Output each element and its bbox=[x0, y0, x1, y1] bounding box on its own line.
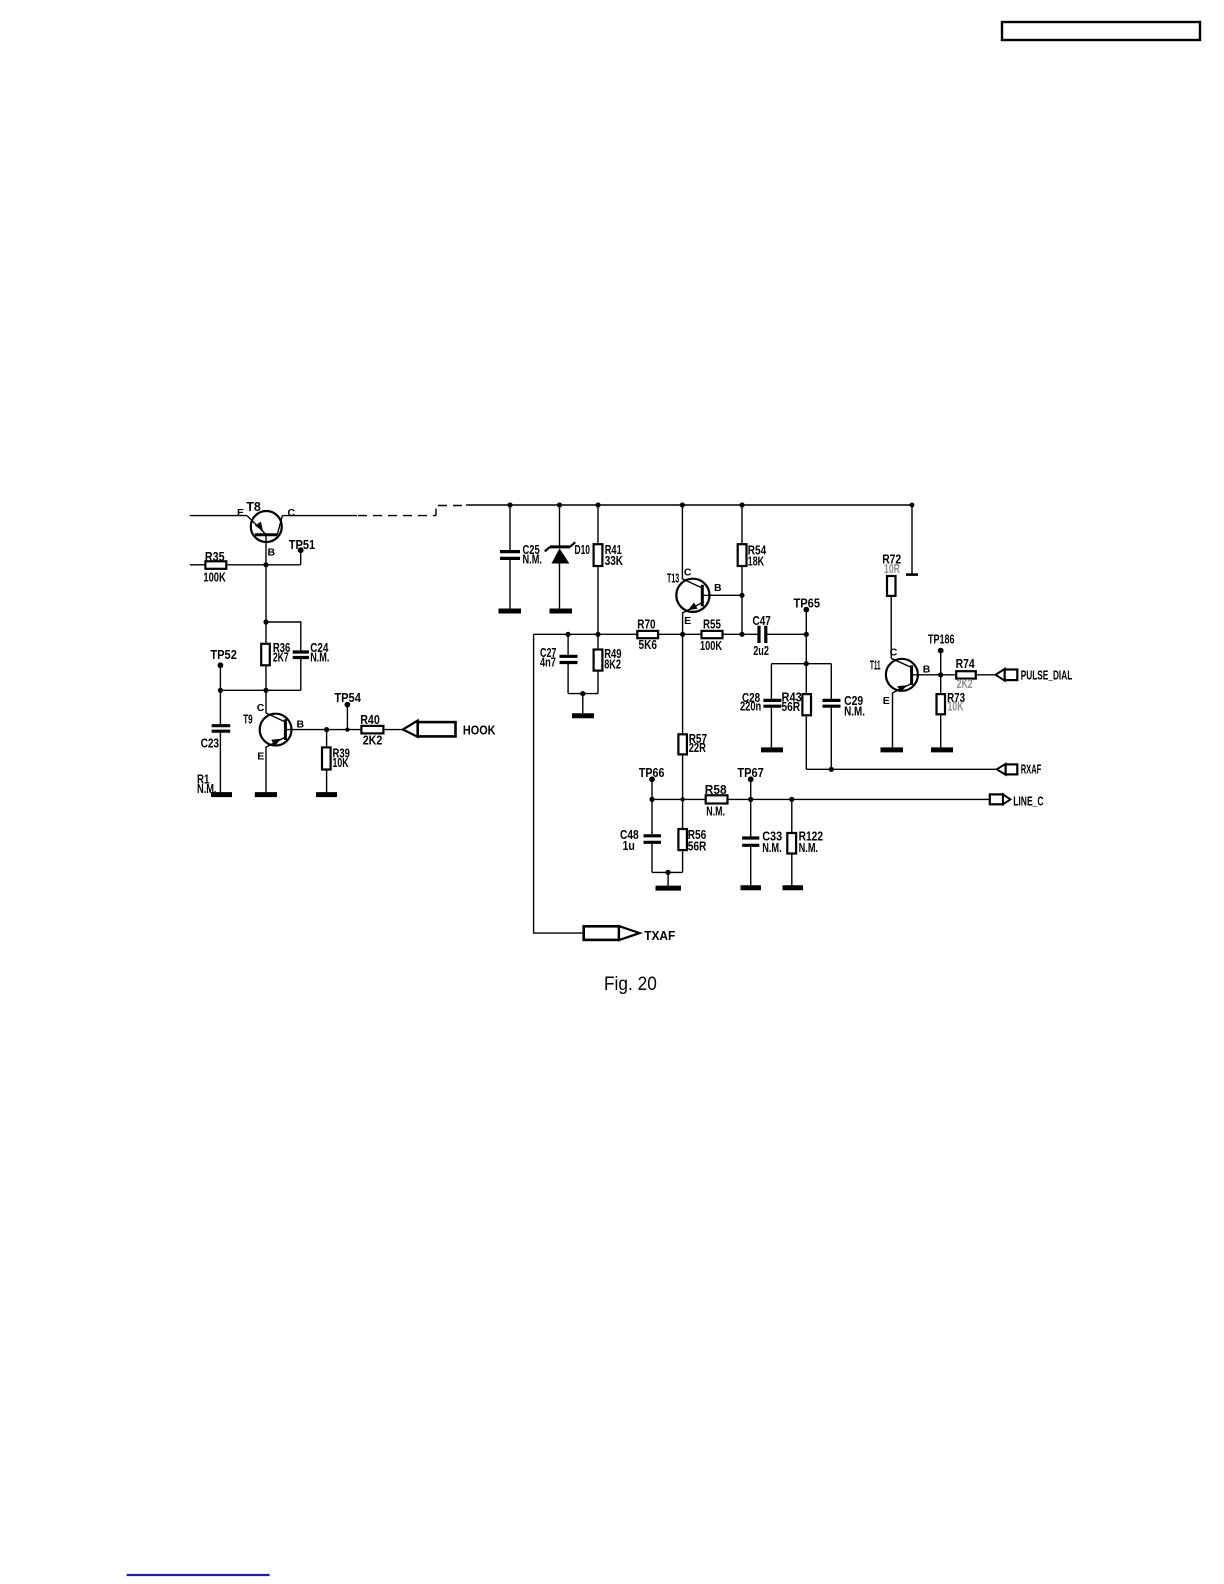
wire: R54 drop bbox=[741, 505, 743, 544]
wire: R122 drop bbox=[791, 799, 793, 833]
ground below R39 bbox=[316, 792, 337, 797]
svg-text:2K7: 2K7 bbox=[273, 651, 289, 665]
wire: C28/R43/C29 top bus bbox=[771, 663, 831, 665]
wire: R55 to C47 bbox=[723, 633, 758, 635]
resistor R39 10K bbox=[322, 730, 350, 770]
wire: C48/R56 bottom bus bbox=[652, 871, 683, 873]
resistor R41 33K bbox=[594, 543, 623, 568]
capacitor C23 bbox=[201, 726, 231, 751]
svg-text:2K2: 2K2 bbox=[957, 677, 973, 691]
wire: R49 bottom lead bbox=[597, 671, 599, 694]
svg-text:10R: 10R bbox=[884, 562, 900, 576]
junction at mid rail / R54 column bbox=[739, 632, 744, 637]
wire: T11 emitter down bbox=[892, 692, 894, 747]
svg-text:D10: D10 bbox=[575, 543, 591, 557]
connector PULSE_DIAL bbox=[996, 669, 1073, 683]
wire: T9 collector from node bbox=[265, 690, 267, 713]
svg-text:10K: 10K bbox=[948, 700, 964, 714]
resistor R43 56R bbox=[782, 664, 812, 716]
ground below T11 emitter bbox=[881, 747, 904, 752]
svg-text:E: E bbox=[883, 695, 890, 707]
wire: R122 to ground bbox=[791, 854, 793, 886]
resistor R56 56R bbox=[678, 799, 706, 853]
resistor R122 N.M. bbox=[787, 830, 823, 855]
wire: D10 to ground bbox=[559, 564, 561, 610]
wire: R56 bottom bbox=[682, 850, 684, 872]
connector LINE_C bbox=[990, 794, 1044, 808]
capacitor C27 4n7 bbox=[540, 646, 578, 670]
wire: C28 drop bbox=[770, 664, 772, 699]
resistor R40 2K2 bbox=[360, 713, 383, 747]
resistor R72 10R bbox=[882, 552, 901, 596]
svg-text:N.M.: N.M. bbox=[523, 553, 542, 567]
svg-text:B: B bbox=[297, 718, 305, 730]
svg-text:1u: 1u bbox=[623, 839, 635, 853]
junction at bottom bus ground stub bbox=[666, 870, 671, 875]
wire: T11 base row bbox=[912, 674, 957, 676]
svg-text:HOOK: HOOK bbox=[463, 723, 496, 737]
test point TP54 bbox=[334, 691, 361, 730]
svg-text:C: C bbox=[288, 507, 296, 519]
wire: TP52 node down to C23 bbox=[219, 690, 221, 724]
svg-text:N.M.: N.M. bbox=[310, 651, 329, 665]
wire: R35 left lead bbox=[190, 564, 206, 566]
wire: node bus above T9 bbox=[220, 689, 300, 691]
test point TP52 bbox=[210, 648, 237, 690]
svg-text:TP51: TP51 bbox=[289, 538, 316, 552]
ground below T9 emitter bbox=[255, 792, 277, 797]
junction at R39 bbox=[324, 727, 329, 732]
resistor R49 8K2 bbox=[594, 647, 622, 671]
junction at rail right corner bbox=[910, 503, 915, 508]
junction rail at C25 bbox=[507, 502, 512, 507]
svg-text:R35: R35 bbox=[205, 550, 225, 564]
junction at TP186 / R73 bbox=[938, 672, 943, 677]
wire: R73 to ground bbox=[940, 714, 942, 747]
svg-text:T11: T11 bbox=[870, 659, 881, 673]
junction at mid rail / R41-R49 column bbox=[595, 632, 600, 637]
capacitor C29 N.M. bbox=[823, 694, 866, 718]
wire: T13 emitter down bbox=[682, 612, 684, 634]
svg-text:N.M.: N.M. bbox=[844, 704, 865, 718]
junction at LINE_C bus / R57-R56 bbox=[680, 797, 684, 801]
junction at R35 / T8 base bbox=[263, 562, 268, 567]
junction at base / R36-C24 split bbox=[263, 619, 268, 624]
ground below C33 bbox=[741, 885, 762, 890]
wire: dashed segment lower bbox=[358, 515, 436, 517]
junction at C27 ground stub bbox=[580, 691, 585, 696]
transistor T9 (PNP) bbox=[243, 702, 304, 763]
svg-text:10K: 10K bbox=[333, 756, 349, 770]
test point TP66 bbox=[639, 766, 665, 799]
svg-text:N.M.: N.M. bbox=[799, 841, 819, 855]
terminal end bar of rail drop bbox=[906, 573, 918, 576]
ground below C28 bbox=[761, 747, 783, 752]
junction at LINE_C bus / R122 bbox=[789, 797, 794, 802]
svg-text:100K: 100K bbox=[700, 639, 722, 653]
svg-text:TP54: TP54 bbox=[334, 691, 361, 705]
svg-text:TP52: TP52 bbox=[210, 648, 237, 662]
wire: LINE_C bus bbox=[650, 798, 990, 800]
wire: C47 to TP65 node bbox=[767, 633, 806, 635]
svg-text:C23: C23 bbox=[201, 737, 219, 751]
wire: D10 drop bbox=[559, 505, 561, 546]
svg-text:T9: T9 bbox=[243, 713, 253, 727]
svg-text:R55: R55 bbox=[703, 618, 721, 632]
wire: TXAF feeder (left column down and over) bbox=[534, 634, 585, 933]
capacitor C25 N.M. bbox=[500, 543, 542, 567]
wire: ground stub bbox=[582, 694, 584, 714]
wire: T8 collector to dashed break bbox=[282, 515, 357, 517]
junction rail at R54 bbox=[739, 502, 744, 507]
svg-text:B: B bbox=[268, 546, 276, 558]
wire: R54 to T13 base junction and mid rail bbox=[741, 566, 743, 634]
wire: C24 branch top bbox=[266, 622, 301, 651]
svg-text:220n: 220n bbox=[740, 700, 761, 714]
connector RXAF bbox=[997, 763, 1042, 777]
svg-text:100K: 100K bbox=[203, 570, 225, 584]
wire: C48 drop bbox=[651, 799, 653, 834]
junction rail at T13 collector bbox=[680, 502, 685, 507]
wire: R41 drop bbox=[597, 505, 599, 544]
transistor T13 (NPN) bbox=[667, 567, 722, 628]
resistor R35 100K bbox=[203, 550, 226, 585]
wire: T13 base to R54 column bbox=[702, 594, 742, 596]
svg-text:C: C bbox=[257, 702, 265, 714]
wire: dashed step vertical bbox=[435, 506, 437, 516]
wire: R72 to T11 collector bend bbox=[890, 596, 892, 658]
wire: T9 base row bbox=[285, 729, 361, 731]
zener diode D10 bbox=[545, 542, 590, 563]
ground below C48/R56 bbox=[656, 886, 682, 891]
wire: C27 drop bbox=[567, 634, 569, 654]
svg-text:2K2: 2K2 bbox=[363, 734, 383, 748]
wire: rail right drop bbox=[911, 505, 913, 574]
resistor R58 N.M. (in line) bbox=[705, 783, 728, 819]
svg-text:TP186: TP186 bbox=[928, 633, 955, 647]
svg-text:C: C bbox=[684, 567, 692, 579]
svg-text:B: B bbox=[714, 582, 722, 594]
wire: C33 drop bbox=[750, 799, 752, 836]
wire: main top supply rail bbox=[466, 504, 912, 506]
svg-text:TXAF: TXAF bbox=[644, 929, 675, 943]
wire: C27 bottom to bus bbox=[567, 664, 569, 694]
junction at bus / R43 bbox=[804, 661, 809, 666]
wire: T9 emitter down bbox=[265, 747, 267, 793]
svg-text:R74: R74 bbox=[956, 657, 975, 671]
junction at T13 base / R54 bbox=[739, 593, 744, 598]
test point TP67 bbox=[737, 766, 763, 799]
junction at TP54 stub bbox=[345, 727, 349, 731]
junction at TP65 node bbox=[804, 632, 809, 637]
wire: T13 emitter to R57 bbox=[682, 634, 684, 734]
wire: C23 to ground bbox=[219, 733, 221, 793]
junction at LINE_C bus / TP66-C48 bbox=[649, 797, 654, 802]
resistor R55 100K bbox=[700, 618, 723, 653]
wire: T8 base vertical bbox=[265, 535, 267, 691]
svg-text:N.M.: N.M. bbox=[706, 805, 725, 819]
connector TXAF bbox=[584, 926, 676, 943]
ground below C25 bbox=[499, 609, 522, 614]
title block empty rectangle top right bbox=[1002, 22, 1200, 40]
wire: TP65 node down to C28/R43/C29 bus bbox=[805, 634, 807, 663]
wire: R39 to ground bbox=[326, 770, 328, 793]
wire: top-left emitter feed to T8 bbox=[190, 515, 247, 517]
capacitor C24 N.M. bbox=[293, 641, 330, 665]
wire: C25 drop bbox=[509, 505, 511, 550]
wire: mid audio rail left of R70 bbox=[534, 633, 638, 635]
capacitor C48 1u bbox=[620, 828, 661, 853]
wire: R40 to HOOK connector bbox=[383, 729, 403, 731]
capacitor C28 220n bbox=[740, 691, 781, 714]
svg-text:56R: 56R bbox=[782, 700, 801, 714]
junction rail at D10 bbox=[557, 502, 562, 507]
capacitor C47 2u2 bbox=[753, 614, 771, 658]
resistor R74 2K2 bbox=[956, 657, 976, 691]
svg-text:R40: R40 bbox=[360, 713, 380, 727]
junction at C29 / RXAF line bbox=[829, 767, 834, 772]
svg-text:18K: 18K bbox=[748, 555, 764, 569]
label R1 N.M. (not mounted) bbox=[197, 773, 217, 796]
svg-text:R70: R70 bbox=[637, 618, 655, 632]
svg-text:T8: T8 bbox=[246, 500, 261, 514]
junction at LINE_C bus / TP67-C33 bbox=[748, 797, 753, 802]
wire: C25 to ground bbox=[509, 560, 511, 609]
svg-text:TP66: TP66 bbox=[639, 766, 665, 780]
svg-text:TP65: TP65 bbox=[794, 596, 821, 610]
connector HOOK bbox=[403, 721, 496, 738]
svg-text:C47: C47 bbox=[753, 614, 771, 628]
resistor R54 18K bbox=[738, 543, 767, 568]
svg-text:5K6: 5K6 bbox=[639, 638, 657, 652]
svg-text:C: C bbox=[890, 647, 898, 659]
svg-text:33K: 33K bbox=[605, 554, 623, 568]
svg-text:Fig. 20: Fig. 20 bbox=[604, 974, 657, 995]
svg-text:TP67: TP67 bbox=[737, 766, 763, 780]
wire: R74 to PULSE_DIAL connector bbox=[976, 674, 996, 676]
capacitor C33 N.M. bbox=[742, 830, 782, 855]
wire: RXAF line bbox=[806, 768, 997, 770]
wire: C33 to ground bbox=[750, 847, 752, 886]
svg-text:B: B bbox=[923, 663, 931, 675]
ground below R122 bbox=[783, 885, 804, 890]
junction at mid rail / T13 emitter bbox=[680, 632, 685, 637]
wire: C24 branch bottom bbox=[300, 659, 302, 691]
junction at T9 collector node bbox=[263, 688, 268, 693]
wire: C27/R49 bottom bus bbox=[568, 693, 598, 695]
svg-text:22R: 22R bbox=[689, 741, 706, 755]
wire: dashed segment upper bbox=[438, 505, 467, 507]
wire: C29 drop bbox=[830, 664, 832, 699]
blue footer rule bbox=[127, 1574, 270, 1576]
svg-text:PULSE_DIAL: PULSE_DIAL bbox=[1021, 669, 1073, 683]
wire: R35 to base node and TP51 stub foot bbox=[226, 564, 300, 566]
test point TP51 bbox=[289, 538, 316, 565]
svg-text:56R: 56R bbox=[688, 839, 707, 853]
svg-text:4n7: 4n7 bbox=[540, 656, 556, 670]
ground below C27 bbox=[572, 713, 594, 718]
ground below R73 bbox=[931, 747, 953, 752]
resistor R36 2K7 bbox=[261, 641, 290, 665]
svg-text:RXAF: RXAF bbox=[1021, 763, 1042, 777]
transistor T11 (PNP) bbox=[870, 647, 931, 708]
ground below C23 bbox=[211, 792, 232, 797]
svg-text:E: E bbox=[257, 751, 264, 763]
transistor T8 (PNP) bbox=[237, 500, 296, 558]
resistor R57 22R bbox=[678, 732, 707, 755]
svg-text:E: E bbox=[684, 615, 691, 627]
wire: R41 down through mid rail to R49 bbox=[597, 566, 599, 650]
svg-text:N.M.: N.M. bbox=[762, 841, 782, 855]
svg-text:8K2: 8K2 bbox=[604, 657, 621, 671]
junction at mid rail / C27 bbox=[566, 632, 571, 637]
wire: R43 down to RXAF line bbox=[805, 715, 807, 769]
wire: R57 down to line bus bbox=[682, 754, 684, 799]
junction rail at R41 bbox=[595, 502, 600, 507]
test point TP65 bbox=[794, 596, 821, 634]
wire: R70 to R55 bbox=[658, 633, 701, 635]
wire: ground stub bbox=[667, 872, 669, 886]
svg-text:T13: T13 bbox=[667, 571, 679, 585]
svg-text:R58: R58 bbox=[705, 783, 727, 797]
svg-text:LINE_C: LINE_C bbox=[1013, 795, 1043, 809]
wire: C48 bottom bbox=[651, 844, 653, 873]
resistor R70 5K6 bbox=[637, 618, 658, 652]
wire: C29 down to RXAF line bbox=[830, 708, 832, 770]
svg-text:E: E bbox=[237, 507, 244, 519]
wire: T13 collector drop bbox=[681, 505, 683, 579]
ground below D10 bbox=[550, 609, 573, 614]
svg-text:2u2: 2u2 bbox=[753, 644, 769, 658]
test point TP186 bbox=[928, 633, 955, 675]
resistor R73 10K bbox=[937, 675, 966, 715]
junction at TP52 column bbox=[218, 688, 223, 693]
wire: C28 to ground bbox=[770, 708, 772, 748]
